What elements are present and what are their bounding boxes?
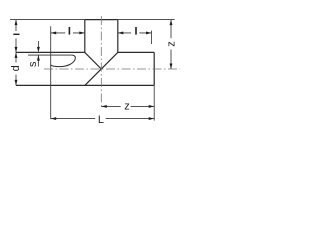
l vert arrows <box>15 20 18 26</box>
arrowheads <box>15 20 173 120</box>
label l (top-left, rotated) <box>13 34 19 35</box>
body top edge left <box>16 51 85 53</box>
right l extension stub <box>151 31 153 45</box>
d arrows <box>15 52 18 58</box>
label l (top dim right) <box>135 27 137 35</box>
crotch diagonal left <box>85 52 102 69</box>
horizontal centerline <box>44 68 180 70</box>
top extension line right <box>118 19 175 21</box>
labels <box>10 27 177 126</box>
right end extension down <box>153 85 155 120</box>
dim l vertical left: line <box>15 20 17 53</box>
L arrows <box>51 117 57 120</box>
l top-right arrows <box>118 31 124 34</box>
body bottom edge <box>16 84 154 86</box>
dim z bottom: line <box>101 105 154 107</box>
l top-left arrows <box>51 31 57 34</box>
dimension lines <box>10 20 175 121</box>
dim s stems <box>37 41 39 67</box>
body top edge right <box>118 51 154 53</box>
branch right wall <box>117 20 119 53</box>
dim l top-left: line <box>51 32 85 34</box>
dim z right vertical: line <box>170 20 172 69</box>
vertical centerline <box>100 16 102 107</box>
dim L bottom: line <box>51 118 155 120</box>
svg-text:s: s <box>27 61 39 67</box>
svg-text:d: d <box>10 65 22 71</box>
svg-text:z: z <box>165 41 177 47</box>
branch top edge <box>85 19 118 21</box>
svg-text:z: z <box>124 100 130 112</box>
label l (top dim left) <box>69 27 71 35</box>
socket inner line <box>28 54 73 56</box>
dim l top-right: line <box>118 32 152 34</box>
branch left wall <box>84 20 86 53</box>
crotch diagonal right (full) <box>85 52 118 85</box>
socket stop vertical <box>50 26 52 119</box>
inner saddle arc <box>51 55 76 67</box>
z right arrows <box>170 20 173 26</box>
dim d vertical: line <box>15 52 17 85</box>
svg-text:L: L <box>98 114 104 126</box>
s arrows <box>37 47 40 53</box>
z bottom arrows <box>101 105 107 108</box>
tee fitting body outline <box>16 20 154 86</box>
top extension line left <box>10 19 85 21</box>
body right end face <box>153 52 155 85</box>
